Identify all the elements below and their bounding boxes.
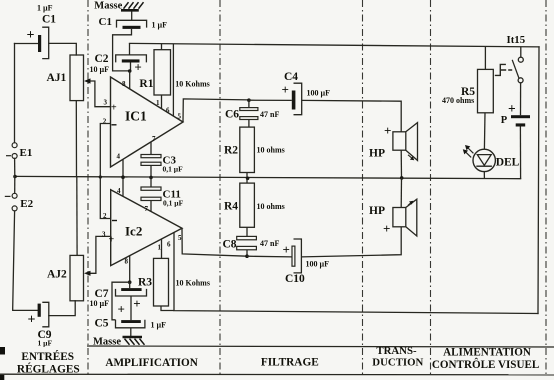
svg-text:+: +	[118, 302, 125, 317]
capacitor C9 (1 uF)	[28, 302, 53, 347]
wire IC1 pin 2 to mid rail	[100, 124, 110, 178]
node dot E1-E2 mid rail	[13, 175, 17, 179]
capacitor C6 (47 nF)	[225, 108, 279, 121]
node dot C6 junction on output wire	[247, 98, 251, 102]
wire R1 top to V+ rail	[161, 44, 163, 50]
capacitor C1 (amplification, 1 uF)	[99, 16, 168, 29]
svg-text:+: +	[111, 103, 117, 114]
wire C8 to output wire	[246, 250, 248, 256]
svg-text:+: +	[133, 296, 140, 311]
svg-text:ENTRÉES: ENTRÉES	[21, 351, 74, 363]
svg-text:100 µF: 100 µF	[306, 260, 330, 269]
op-amp Ic2	[102, 187, 182, 266]
svg-text:10 ohms: 10 ohms	[257, 146, 285, 155]
wire C1 entrees left lead	[15, 43, 39, 45]
svg-text:47 nF: 47 nF	[260, 239, 279, 248]
svg-text:+: +	[383, 221, 390, 236]
svg-text:0,1 µF: 0,1 µF	[163, 199, 184, 208]
wire mid rail to C11	[150, 177, 152, 187]
op-amp IC1	[103, 77, 183, 167]
svg-text:+: +	[508, 101, 516, 116]
svg-text:DEL: DEL	[496, 156, 520, 168]
svg-text:1 µF: 1 µF	[152, 21, 168, 30]
wire IC2 output pin 5 down and right	[182, 228, 247, 256]
svg-text:+: +	[134, 59, 141, 74]
wire C6 junction down	[248, 100, 250, 107]
wire C2 top to V+ rail	[129, 43, 131, 55]
svg-text:AJ2: AJ2	[47, 269, 67, 281]
wire C9 right lead to AJ2 bottom	[49, 301, 75, 316]
wire R4 bottom to C8	[246, 227, 248, 236]
node dot C3/C11 mid rail	[149, 176, 153, 180]
wire R2 bottom to mid rail	[246, 173, 248, 179]
wire V+ rail to R5	[484, 47, 486, 70]
svg-text:Ic2: Ic2	[125, 223, 142, 238]
wire R1 bottom to pin 1	[161, 95, 163, 109]
wire IC1 pin 6 to V+ rail	[172, 44, 174, 116]
resistor R1 (10 Kohms)	[139, 50, 209, 95]
svg-text:R3: R3	[138, 277, 152, 289]
wire IC1 pin 4 to mid rail	[122, 159, 124, 177]
svg-text:10 µF: 10 µF	[90, 299, 110, 308]
loudspeaker HP2	[369, 199, 417, 236]
svg-text:100 µF: 100 µF	[307, 89, 331, 98]
wire R3 bottom to rail / pin 6 riser	[161, 306, 174, 311]
svg-text:AMPLIFICATION: AMPLIFICATION	[105, 357, 197, 369]
wire AJ2 wiper to IC2 pin 3	[90, 236, 111, 273]
ground Masse (bottom)	[93, 337, 145, 348]
node dot pin2 mid rail	[99, 175, 102, 178]
svg-text:1 µF: 1 µF	[37, 3, 53, 12]
svg-text:R2: R2	[224, 144, 238, 156]
LED DEL	[463, 145, 520, 172]
section separator line 5 (right edge)	[545, 0, 547, 375]
scan artifact left bottom corner	[0, 375, 4, 380]
wire C1 bottom loop to pin8 node	[113, 29, 132, 71]
svg-text:0,1 µF: 0,1 µF	[163, 165, 184, 174]
node dot R2/R4 mid rail	[246, 177, 250, 181]
svg-text:4: 4	[117, 187, 121, 195]
svg-text:10 Kohms: 10 Kohms	[176, 279, 210, 288]
wire mid rail to R4 top	[246, 178, 248, 183]
section label ALIMENTATION CONTROLE VISUEL	[432, 347, 539, 372]
wire C3 to mid rail	[150, 165, 152, 177]
scan artifact left edge mid	[0, 347, 5, 355]
svg-text:7: 7	[145, 205, 149, 213]
wire C8 junction to C10	[247, 255, 292, 258]
svg-text:+: +	[27, 28, 35, 43]
wire C1 entrees right lead to AJ1 top	[49, 43, 77, 55]
svg-text:470 ohms: 470 ohms	[442, 96, 474, 105]
wire C5 to ground	[130, 328, 132, 337]
node dot HP mid rail	[400, 176, 404, 180]
svg-text:7: 7	[152, 135, 156, 143]
svg-text:C2: C2	[95, 53, 109, 65]
capacitor C8 (47 nF)	[223, 236, 280, 250]
node pin8 junction dot	[128, 69, 132, 73]
svg-text:C5: C5	[95, 317, 109, 329]
svg-text:E2: E2	[20, 198, 33, 210]
wire bottom rail	[174, 233, 538, 314]
section label TRANS-DUCTION	[372, 345, 423, 368]
svg-text:4: 4	[117, 152, 121, 160]
wire C4 to HP1	[302, 100, 402, 131]
wire E1 lower to mid rail	[14, 158, 16, 176]
svg-text:10 µF: 10 µF	[90, 65, 110, 74]
svg-text:10 Kohms: 10 Kohms	[175, 79, 209, 88]
node dot pin4/mid-rail	[121, 175, 125, 179]
node E1 input terminals	[6, 143, 32, 159]
battery P	[501, 101, 530, 127]
svg-text:R1: R1	[139, 78, 153, 90]
wire Masse to C1	[131, 11, 133, 20]
ground Masse (top)	[94, 0, 143, 11]
svg-text:5: 5	[178, 234, 182, 242]
border bottom edge line	[0, 373, 554, 376]
svg-text:P: P	[501, 115, 508, 126]
wire IC1 pin 7 to C3	[150, 142, 152, 155]
svg-text:TRANS-: TRANS-	[376, 345, 417, 357]
svg-text:ALIMENTATION: ALIMENTATION	[443, 347, 531, 359]
svg-text:C10: C10	[285, 273, 305, 285]
wire C2 bottom to pin8 node	[130, 63, 132, 71]
section label ENTREES REGLAGES	[17, 351, 80, 376]
svg-text:C1: C1	[42, 14, 56, 26]
wire R5 to DEL	[483, 113, 486, 150]
capacitor C2 (10 uF)	[90, 53, 147, 75]
svg-text:C1: C1	[99, 16, 112, 28]
svg-text:+: +	[109, 235, 115, 246]
capacitor C11 (0,1 uF)	[141, 187, 184, 208]
svg-text:RÉGLAGES: RÉGLAGES	[17, 364, 80, 376]
svg-text:6: 6	[166, 107, 170, 115]
svg-text:10 ohms: 10 ohms	[257, 202, 285, 211]
wire mid rail to E2 top	[14, 176, 16, 193]
svg-text:It15: It15	[507, 34, 526, 46]
node dot C8 junction	[245, 254, 249, 258]
wire C6 junction to C4	[249, 99, 292, 101]
section separator line 1 (Entrees/Amplification)	[87, 0, 89, 375]
section separator line 4 (Transduction/Alimentation)	[430, 0, 432, 375]
svg-text:+: +	[282, 82, 289, 97]
node E2 input terminals	[5, 193, 34, 211]
resistor R3 (10 Kohms)	[138, 258, 210, 306]
capacitor C5 (1 uF)	[95, 317, 167, 329]
loudspeaker HP1	[369, 123, 418, 161]
svg-text:5: 5	[178, 113, 182, 121]
wire mid ground rail	[15, 176, 521, 178]
svg-text:+: +	[384, 123, 391, 138]
resistor R5 (470 ohms)	[442, 69, 493, 112]
wire C7 to C5	[130, 296, 132, 320]
svg-text:Masse: Masse	[93, 337, 121, 348]
svg-text:8: 8	[125, 258, 129, 266]
svg-text:8: 8	[122, 80, 126, 88]
wire DEL to mid rail	[483, 172, 485, 179]
border line above section labels	[87, 346, 554, 347]
svg-text:DUCTION: DUCTION	[372, 357, 423, 369]
potentiometer AJ1	[47, 55, 91, 101]
svg-text:CONTRÔLE VISUEL: CONTRÔLE VISUEL	[432, 358, 539, 371]
wire AJ1 wiper to IC1 pin 3	[90, 81, 110, 107]
capacitor C7 (10 uF)	[90, 288, 147, 311]
svg-text:1 µF: 1 µF	[151, 321, 167, 330]
capacitor C3 (0,1 uF)	[141, 155, 183, 174]
wire IC2 pin 1 to R3 top	[161, 239, 163, 258]
svg-text:FILTRAGE: FILTRAGE	[261, 356, 319, 368]
svg-text:1: 1	[156, 99, 160, 107]
wire pin8 node into C7	[129, 282, 131, 288]
svg-text:E1: E1	[20, 147, 33, 159]
wire switch to battery	[520, 83, 522, 115]
wire top V+ rail	[130, 43, 540, 47]
capacitor C4 (100 uF)	[282, 71, 331, 115]
wire IC2 pin 4 to mid rail	[122, 178, 124, 197]
svg-text:3: 3	[102, 231, 106, 239]
svg-text:C8: C8	[223, 239, 237, 251]
wire HP1 bottom to mid rail	[400, 150, 402, 178]
wire C11 to IC2 pin 7	[150, 201, 152, 212]
wire E2 bottom down to C9	[13, 211, 38, 310]
wire pin8 node left loop to C5 bracket	[112, 282, 130, 320]
svg-text:IC1: IC1	[125, 109, 147, 124]
svg-text:+: +	[283, 242, 290, 257]
svg-text:R4: R4	[224, 201, 238, 213]
svg-text:HP: HP	[369, 147, 385, 159]
wire battery to mid rail end	[519, 127, 521, 179]
potentiometer AJ2	[47, 255, 91, 300]
wire C6 to R2	[248, 120, 250, 128]
svg-text:3: 3	[104, 99, 108, 107]
wire IC2 pin 8 down	[129, 256, 131, 282]
node pin8 C7 junction dot	[128, 280, 132, 284]
wire mid rail to HP2 top	[400, 178, 402, 208]
wire AJ1 bottom to mid rail	[75, 101, 77, 177]
switch It15	[495, 34, 525, 83]
svg-text:C6: C6	[225, 109, 239, 121]
section separator line 3 (Filtrage/Transduction)	[362, 0, 364, 375]
svg-text:Masse: Masse	[94, 0, 122, 11]
svg-text:6: 6	[167, 241, 171, 249]
capacitor C10 (100 uF)	[283, 239, 330, 285]
svg-text:HP: HP	[369, 205, 385, 217]
wire pin 8 into IC1	[129, 71, 131, 89]
wire AJ2 top to mid rail	[76, 177, 78, 256]
section separator line 2 (Amplification/Filtrage)	[219, 0, 221, 375]
wire C10 to HP2	[301, 227, 401, 257]
svg-text:AJ1: AJ1	[47, 72, 67, 84]
wire left input rail top (C1 feed)	[14, 44, 16, 143]
capacitor C1 (entrees, 1 uF)	[27, 3, 57, 58]
wire IC1 output pin 5 up and right	[183, 99, 249, 122]
resistor R4 (10 ohms)	[224, 183, 285, 227]
svg-text:47 nF: 47 nF	[260, 110, 279, 119]
wire IC2 pin 2 to mid rail	[100, 177, 110, 218]
svg-text:1 µF: 1 µF	[38, 339, 53, 348]
svg-text:+: +	[28, 313, 36, 328]
resistor R2 (10 ohms)	[224, 127, 285, 172]
wire right border (V+ return)	[538, 47, 539, 314]
